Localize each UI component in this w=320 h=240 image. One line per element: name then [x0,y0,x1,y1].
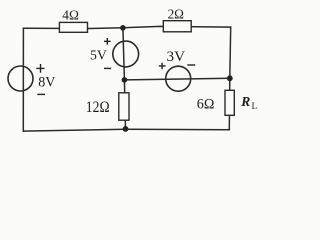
svg-text:12Ω: 12Ω [86,99,110,116]
svg-text:3V: 3V [167,49,186,65]
svg-text:2Ω: 2Ω [168,7,184,22]
svg-text:R: R [240,94,250,109]
svg-text:4Ω: 4Ω [62,8,79,23]
svg-text:5V: 5V [90,49,107,64]
svg-text:6Ω: 6Ω [197,97,215,113]
svg-text:8V: 8V [38,74,56,90]
svg-text:L: L [252,102,258,112]
